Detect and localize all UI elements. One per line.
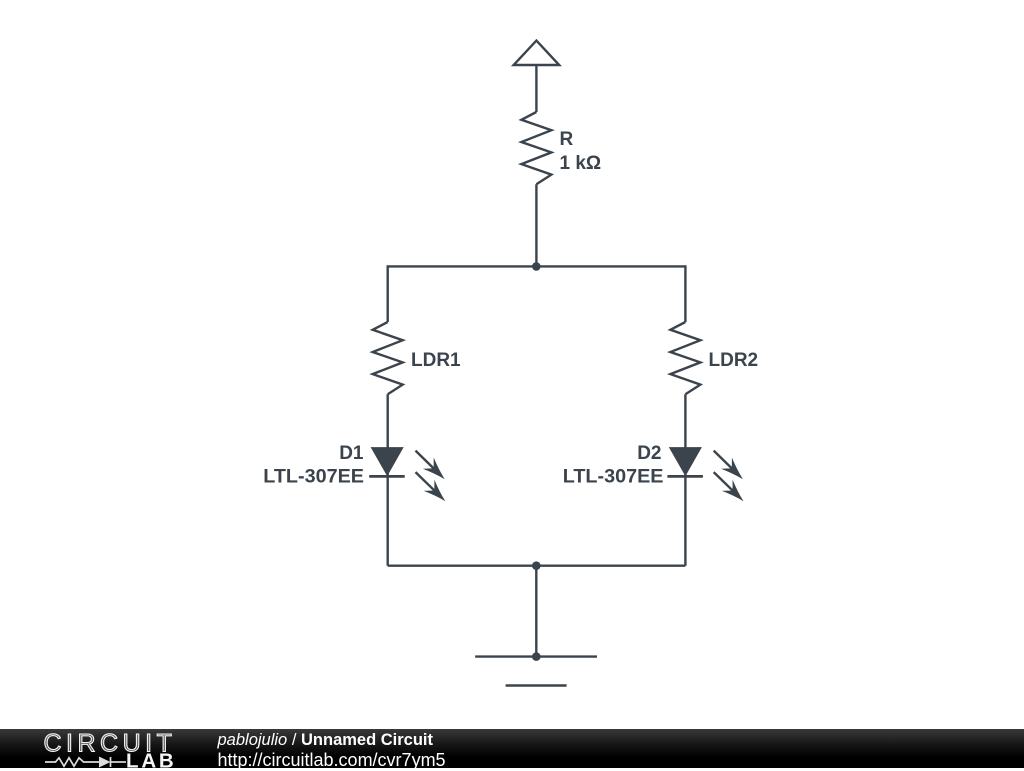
svg-text:LTL-307EE: LTL-307EE — [263, 466, 364, 488]
footer line 1: author / title — [218, 731, 434, 750]
svg-text:D1: D1 — [339, 443, 364, 464]
svg-text:LDR2: LDR2 — [709, 350, 759, 371]
node junction top — [532, 262, 541, 271]
wire R to top rail — [535, 184, 537, 266]
D2 light arrow 2 shaft — [714, 472, 735, 492]
node junction ground — [532, 652, 541, 661]
svg-text:LDR1: LDR1 — [411, 350, 461, 371]
D1 light arrow 1 head — [423, 458, 445, 480]
ground bar 2 — [506, 684, 567, 686]
resistor R1 zigzag — [521, 112, 551, 184]
svg-text:1 kΩ: 1 kΩ — [560, 153, 602, 174]
footer line 2: url — [218, 750, 446, 771]
svg-text:LTL-307EE: LTL-307EE — [563, 466, 664, 488]
wire top rail — [388, 266, 686, 322]
wire LDR1 to D1 and down to bottom rail — [387, 394, 389, 565]
footer bar — [0, 729, 1024, 769]
D1 cathode bar — [369, 475, 405, 478]
svg-text:D2: D2 — [637, 443, 661, 464]
wire bottom rail — [388, 565, 686, 567]
CircuitLab logo — [40, 731, 180, 769]
D1 light arrow 2 head — [424, 480, 446, 502]
D2 light arrow 2 head — [722, 480, 744, 502]
svg-text:R: R — [560, 129, 574, 150]
svg-text:LAB: LAB — [126, 749, 177, 769]
power supply V+ symbol — [514, 41, 560, 65]
resistor LDR2 zigzag — [670, 322, 700, 394]
D2 light arrow 1 head — [721, 458, 743, 480]
resistor LDR1 zigzag — [373, 322, 403, 394]
D2 cathode bar — [667, 475, 703, 478]
ground bar 1 — [475, 655, 597, 657]
D2 light arrow 1 shaft — [714, 451, 734, 471]
LED D2 triangle — [669, 447, 702, 476]
D1 light arrow 1 shaft — [416, 451, 436, 471]
D1 light arrow 2 shaft — [416, 472, 437, 492]
LED D1 triangle — [371, 447, 404, 476]
logo resistor-diode glyph — [45, 757, 126, 767]
wire LDR2 to D2 and down to bottom rail — [684, 394, 686, 565]
wire power to R — [535, 65, 537, 112]
wire to ground — [535, 566, 537, 657]
logo diode triangle — [99, 756, 111, 767]
node junction bottom — [532, 561, 541, 570]
